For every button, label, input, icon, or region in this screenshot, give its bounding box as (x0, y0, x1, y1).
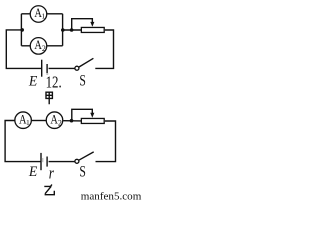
label jia (top circuit caption) (46, 92, 52, 104)
node: wiper tap junction dot (top circuit) (70, 28, 74, 32)
rheostat R2 wiper arrowhead (bottom circuit) (90, 113, 94, 118)
svg-text:E: E (28, 163, 38, 180)
wire: switch to bottom-right corner, right rail up to rheostat (bottom circuit) (96, 121, 116, 162)
svg-text:1: 1 (26, 118, 30, 127)
gray artifact above 12. (46, 73, 48, 75)
wire: right junction to rheostat left terminal (top circuit) (63, 29, 82, 31)
svg-text:E: E (28, 73, 38, 90)
ammeter A1 (bottom circuit) (15, 112, 32, 129)
switch S (bottom circuit) pivot circle (75, 159, 79, 163)
rheostat R2 (bottom circuit) body (81, 118, 104, 123)
switch S (bottom circuit) open blade (79, 152, 94, 160)
svg-text:r: r (49, 164, 54, 183)
rheostat R2 wiper arm wire (bottom circuit) (72, 109, 93, 120)
svg-text:manfen5.com: manfen5.com (81, 192, 142, 202)
node: right branch junction dot (top circuit) (61, 28, 65, 32)
battery E,r (bottom circuit) short thick plate (46, 157, 48, 167)
svg-text:12.: 12. (46, 74, 62, 92)
ammeter A2 (bottom circuit) (46, 112, 63, 129)
rheostat R1 wiper arrowhead (top circuit) (90, 22, 94, 27)
wire: bottom branch segments to ammeter A2 (21, 45, 62, 47)
wire: ammeter A2 to rheostat with tap (bottom circuit) (63, 120, 81, 122)
battery E,r (bottom circuit) long plate (40, 153, 42, 170)
node: wiper tap junction dot (bottom circuit) (70, 119, 74, 123)
wire: battery to switch (bottom circuit) (49, 161, 75, 163)
switch S (top circuit) open blade (79, 58, 94, 67)
wire: left branch vertical (top circuit) (20, 14, 22, 46)
wire: between ammeters A1 and A2 (bottom circuit) (32, 120, 46, 122)
rheostat R1 wiper arm wire (top circuit) (72, 19, 93, 30)
ammeter A2 (top circuit) (30, 38, 47, 55)
svg-text:2: 2 (58, 119, 62, 128)
label yi (bottom circuit caption) (44, 185, 54, 195)
gray artifact near bottom battery (42, 158, 44, 162)
battery E (top circuit) short thick plate (46, 64, 48, 73)
wire: top branch segments to ammeter A1 (21, 13, 62, 15)
wire: bottom circuit top-left corner and left rail down to battery (5, 121, 41, 162)
svg-text:S: S (79, 73, 86, 90)
wire: battery to switch (top circuit) (49, 67, 75, 69)
switch S (top circuit) pivot circle (75, 66, 79, 70)
battery E (top circuit) long plate (41, 60, 43, 77)
wire: right branch vertical (top circuit) (62, 14, 64, 46)
ammeter A1 (top circuit) (30, 6, 47, 23)
svg-text:S: S (79, 164, 86, 181)
node: left branch junction dot (top circuit) (20, 28, 24, 32)
svg-text:2: 2 (42, 44, 46, 53)
rheostat R1 (top circuit) body (81, 27, 104, 32)
wire: switch to bottom-right corner, right rail up to rheostat (top circuit) (95, 30, 113, 68)
svg-text:1: 1 (41, 12, 45, 21)
wire: top circuit left rail and bottom-left run (6, 30, 41, 69)
